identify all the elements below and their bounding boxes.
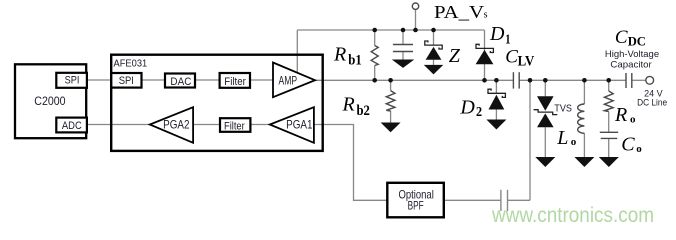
svg-text:o: o — [636, 143, 642, 155]
svg-text:C: C — [505, 47, 518, 68]
svg-text:Capacitor: Capacitor — [610, 59, 651, 70]
svg-text:ADC: ADC — [62, 120, 82, 132]
svg-text:PGA1: PGA1 — [286, 117, 313, 131]
svg-text:DAC: DAC — [170, 76, 191, 88]
svg-text:Filter: Filter — [224, 76, 246, 88]
svg-text:DC: DC — [628, 34, 646, 49]
svg-text:Filter: Filter — [224, 121, 245, 133]
svg-text:L: L — [556, 127, 568, 149]
svg-text:s: s — [484, 9, 488, 20]
svg-text:C: C — [621, 134, 635, 156]
svg-text:SPI: SPI — [65, 74, 80, 86]
svg-text:D: D — [489, 23, 505, 45]
svg-text:o: o — [571, 136, 577, 148]
svg-text:DC Line: DC Line — [637, 98, 667, 109]
svg-text:Z: Z — [449, 45, 461, 67]
svg-text:LV: LV — [518, 53, 535, 69]
svg-text:SPI: SPI — [119, 75, 134, 87]
svg-text:TVS: TVS — [554, 103, 572, 115]
svg-text:b2: b2 — [357, 103, 370, 119]
svg-text:AFE031: AFE031 — [114, 57, 148, 69]
svg-text:PGA2: PGA2 — [163, 117, 190, 131]
svg-text:www.cntronics.com: www.cntronics.com — [491, 204, 654, 227]
svg-text:AMP: AMP — [279, 76, 298, 88]
svg-text:PA_V: PA_V — [434, 2, 484, 22]
svg-text:b1: b1 — [348, 53, 361, 69]
svg-text:C: C — [615, 27, 628, 48]
svg-text:R: R — [614, 104, 627, 126]
svg-text:R: R — [333, 43, 346, 65]
svg-text:R: R — [342, 94, 355, 116]
svg-text:BPF: BPF — [408, 200, 424, 212]
svg-text:D: D — [459, 96, 475, 118]
svg-text:o: o — [630, 114, 636, 126]
svg-text:2: 2 — [476, 105, 482, 120]
svg-text:1: 1 — [505, 32, 510, 47]
svg-text:C2000: C2000 — [34, 94, 66, 108]
